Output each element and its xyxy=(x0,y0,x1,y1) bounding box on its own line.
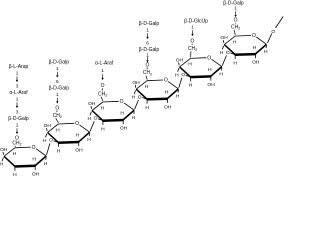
svg-text:O: O xyxy=(234,18,238,24)
bond CH2 to C5 of Gal-2 xyxy=(56,118,59,123)
Gal-1 H on C3 xyxy=(14,168,16,171)
svg-text:H: H xyxy=(233,60,237,66)
svg-text:1: 1 xyxy=(234,6,237,11)
svg-text:H: H xyxy=(189,83,193,89)
bond column O to CH2 of Gal-3 xyxy=(101,88,103,90)
svg-text:α-L-Araf: α-L-Araf xyxy=(95,61,114,67)
bond O to Gal-3 C1 xyxy=(135,100,139,109)
svg-text:O: O xyxy=(252,33,256,39)
bond CH2 to C5 of Gal-6 xyxy=(234,30,235,35)
svg-text:O: O xyxy=(164,78,168,84)
svg-text:β-D-Galp: β-D-Galp xyxy=(139,21,160,27)
Gal-6 H on C3 xyxy=(234,56,236,59)
Gal-4 OH on C2 xyxy=(166,100,168,103)
Gal-6 H on C4 xyxy=(222,46,223,50)
svg-text:H: H xyxy=(87,137,91,143)
bond column O to CH2 of Gal-2 xyxy=(56,110,58,112)
svg-text:O: O xyxy=(191,39,195,45)
svg-text:H: H xyxy=(132,95,136,101)
Gal-6 OH on C2 xyxy=(255,55,257,58)
bond O to Gal-2 C1 xyxy=(90,121,94,131)
svg-text:1: 1 xyxy=(191,24,194,29)
svg-text:3: 3 xyxy=(16,83,19,88)
svg-text:OH: OH xyxy=(176,58,184,64)
svg-text:β-D-GlcUp: β-D-GlcUp xyxy=(184,18,208,24)
svg-text:β-D-Galp: β-D-Galp xyxy=(49,59,70,65)
svg-text:H: H xyxy=(264,49,268,55)
Gal-3 H on C1 xyxy=(133,111,135,114)
svg-text:β-D-Galp: β-D-Galp xyxy=(8,116,29,122)
Gal-5 OH on C2 xyxy=(210,78,212,81)
svg-text:OH: OH xyxy=(132,80,140,86)
Gal-4 H on C4 xyxy=(134,90,135,94)
ring Gal-3: Haworth hexagon xyxy=(92,99,134,121)
Gal-6 H on C1 xyxy=(265,46,267,49)
Gal-5 H on C1 xyxy=(220,68,222,71)
bond column O to CH2 of Gal-4 xyxy=(146,67,148,69)
svg-text:1: 1 xyxy=(16,96,19,101)
svg-text:β-D-Galp: β-D-Galp xyxy=(139,47,160,53)
bond CH2 to C5 of Gal-3 xyxy=(101,97,103,101)
svg-text:H: H xyxy=(175,72,179,78)
svg-text:O: O xyxy=(120,99,124,105)
svg-text:H: H xyxy=(176,94,180,100)
ring Gal-1: Haworth hexagon xyxy=(4,145,46,167)
svg-text:H: H xyxy=(56,127,60,133)
Gal-5 H on C4 xyxy=(178,68,179,72)
Gal-3 H on C4 xyxy=(90,112,91,116)
svg-text:H: H xyxy=(145,105,149,111)
svg-text:H: H xyxy=(101,105,105,111)
bond O to Gal-5 C1 xyxy=(222,55,226,65)
bond CH2 to C5 of Gal-1 xyxy=(14,146,16,147)
svg-text:O: O xyxy=(181,72,185,78)
svg-text:H: H xyxy=(253,45,257,51)
svg-text:H: H xyxy=(44,161,48,167)
svg-text:O: O xyxy=(94,116,98,122)
Gal-1 H on C1 xyxy=(45,157,47,160)
svg-text:H: H xyxy=(120,111,124,117)
svg-text:H: H xyxy=(208,67,212,73)
svg-text:1: 1 xyxy=(146,27,149,32)
svg-text:1: 1 xyxy=(146,52,149,57)
ring Gal-2: Haworth hexagon xyxy=(48,121,90,143)
svg-text:OH: OH xyxy=(0,147,8,153)
Gal-3 OH on C2 xyxy=(122,121,124,124)
svg-text:OH: OH xyxy=(207,82,215,88)
svg-text:O: O xyxy=(146,62,150,68)
svg-text:H: H xyxy=(188,62,192,68)
bond CH2 to C5 of Gal-4 xyxy=(146,76,147,80)
svg-text:OH: OH xyxy=(32,171,40,177)
svg-text:H: H xyxy=(13,151,17,157)
svg-text:H: H xyxy=(101,126,105,132)
svg-text:1: 1 xyxy=(56,92,59,97)
svg-text:OH: OH xyxy=(44,123,52,129)
Gal-4 H on C3 xyxy=(146,101,148,104)
bond O to Gal-4 C1 xyxy=(179,78,182,88)
svg-text:O: O xyxy=(101,83,105,89)
Gal-1 H on C4 xyxy=(2,158,3,162)
bond to next repeating unit xyxy=(276,17,284,28)
svg-text:O: O xyxy=(49,138,53,144)
svg-text:OH: OH xyxy=(120,126,128,132)
svg-text:O: O xyxy=(32,145,36,151)
svg-text:H: H xyxy=(165,89,169,95)
svg-text:H: H xyxy=(32,157,36,163)
svg-text:H: H xyxy=(220,50,224,56)
svg-text:1: 1 xyxy=(56,66,59,71)
svg-text:6: 6 xyxy=(56,79,59,84)
svg-text:O: O xyxy=(55,105,59,111)
svg-text:O: O xyxy=(271,29,275,35)
svg-text:H: H xyxy=(13,172,17,177)
svg-text:β-D-Galp: β-D-Galp xyxy=(49,85,70,91)
chain continuation bond from Gal-6 C1 xyxy=(268,34,272,43)
svg-text:H: H xyxy=(43,138,47,144)
Gal-2 H on C4 xyxy=(46,134,47,138)
svg-text:O: O xyxy=(226,50,230,56)
svg-text:1: 1 xyxy=(16,70,19,75)
Gal-1 OH on C2 xyxy=(34,167,36,170)
svg-text:H: H xyxy=(88,116,92,122)
svg-text:O: O xyxy=(207,55,211,61)
Gal-2 OH on C2 xyxy=(78,143,80,146)
svg-text:O: O xyxy=(138,94,142,100)
svg-text:OH: OH xyxy=(88,101,96,107)
Gal-5 H on C3 xyxy=(190,78,192,81)
svg-text:H: H xyxy=(219,71,223,77)
svg-text:OH: OH xyxy=(164,104,172,110)
svg-text:H: H xyxy=(132,115,136,121)
svg-text:1: 1 xyxy=(16,122,19,127)
svg-text:H: H xyxy=(76,133,80,139)
bond column O to CH2 of Gal-5 xyxy=(191,44,193,45)
svg-text:H: H xyxy=(57,148,61,154)
svg-text:1: 1 xyxy=(101,68,104,73)
svg-text:α-L-Araf: α-L-Araf xyxy=(9,90,28,96)
svg-text:3: 3 xyxy=(16,109,19,114)
svg-text:H: H xyxy=(145,84,149,90)
bond O to Gal-1 C1 xyxy=(47,143,50,155)
Gal-2 H on C3 xyxy=(57,144,59,147)
svg-text:H: H xyxy=(233,39,237,45)
svg-text:OH: OH xyxy=(252,60,260,66)
svg-text:OH: OH xyxy=(75,148,83,154)
svg-text:OH: OH xyxy=(220,35,228,41)
svg-text:H: H xyxy=(0,162,4,168)
Gal-2 H on C1 xyxy=(88,133,90,136)
ring Gal-5: Haworth hexagon xyxy=(180,55,222,77)
svg-text:O: O xyxy=(75,121,79,127)
ring Gal-4: Haworth hexagon xyxy=(136,78,178,100)
svg-text:6: 6 xyxy=(146,40,149,45)
Gal-4 H on C1 xyxy=(177,90,179,93)
Gal-3 H on C3 xyxy=(102,122,104,125)
svg-text:β-L-Arap: β-L-Arap xyxy=(9,64,29,70)
bond CH2 to C5 of Gal-5 xyxy=(190,51,192,57)
bond column O to CH2 of Gal-6 xyxy=(234,22,236,25)
ring Gal-6: Haworth hexagon xyxy=(224,33,266,55)
